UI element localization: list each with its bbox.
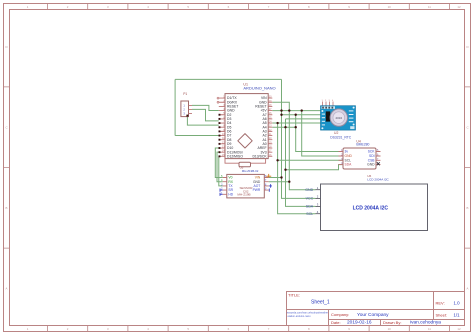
wire D12 to sensor TX bbox=[219, 156, 223, 186]
svg-text:D12/MISO: D12/MISO bbox=[227, 154, 243, 158]
svg-text:B: B bbox=[467, 206, 469, 210]
svg-text:11: 11 bbox=[428, 327, 431, 331]
svg-text:Sheet_1: Sheet_1 bbox=[311, 300, 330, 306]
svg-text:SCL: SCL bbox=[306, 212, 313, 216]
wire loop left vertical bbox=[174, 79, 176, 135]
junction bbox=[288, 181, 290, 183]
wire bus to RTC row2 bbox=[282, 114, 321, 116]
svg-text:ARDUINO_NANO: ARDUINO_NANO bbox=[243, 85, 275, 90]
wire GND bus to LCD GND bbox=[272, 102, 315, 189]
svg-text:Drawn By:: Drawn By: bbox=[383, 320, 401, 325]
RTC module U2 DS3231 bbox=[321, 100, 356, 139]
wire bus to RTC row3 bbox=[286, 118, 321, 120]
svg-text:HD: HD bbox=[228, 192, 233, 196]
LCD U6 2004A I2C bbox=[305, 174, 427, 230]
svg-text:TITLE:: TITLE: bbox=[288, 293, 300, 298]
svg-text:PWR: PWR bbox=[253, 188, 261, 192]
diamond bbox=[238, 134, 252, 148]
junction bbox=[276, 159, 278, 161]
junction bbox=[280, 176, 282, 178]
wire sensor GND to bus bbox=[269, 181, 290, 183]
wire bus V3 to LCD SDA bbox=[286, 119, 316, 206]
wire A4 row bbox=[272, 126, 295, 128]
title block bbox=[287, 292, 465, 326]
wire JP1 pin3 to D4 bbox=[187, 117, 218, 126]
svg-text:GND: GND bbox=[367, 163, 375, 167]
svg-text:2032: 2032 bbox=[335, 116, 342, 120]
svg-text:LCD 2004A I2C: LCD 2004A I2C bbox=[367, 177, 389, 181]
wire sensor VIN to bus bbox=[269, 177, 282, 179]
junction bbox=[295, 114, 297, 116]
svg-text:Company:: Company: bbox=[331, 312, 349, 317]
junction bbox=[276, 122, 278, 124]
wire JP1 pin2 to D3 bbox=[192, 109, 219, 121]
wire D11 to sensor RX bbox=[217, 152, 223, 182]
svg-text:12: 12 bbox=[457, 5, 461, 9]
svg-text:easyeda.com/ivan.cehodnya/weat: easyeda.com/ivan.cehodnya/weather bbox=[287, 312, 328, 315]
svg-text:10: 10 bbox=[388, 327, 392, 331]
svg-text:D: D bbox=[466, 45, 468, 49]
svg-text:A: A bbox=[467, 287, 469, 291]
svg-text:SDA: SDA bbox=[306, 205, 314, 209]
svg-text:B: B bbox=[6, 206, 8, 210]
noconnect X on BME GND bbox=[377, 162, 380, 165]
svg-text:Sheet:: Sheet: bbox=[436, 313, 448, 318]
svg-text:SDA: SDA bbox=[345, 163, 353, 167]
svg-text:MH-Z19B-02: MH-Z19B-02 bbox=[242, 169, 259, 173]
svg-text:A: A bbox=[6, 287, 8, 291]
sensor U4 BME280 bbox=[339, 140, 381, 169]
svg-text:REV:: REV: bbox=[436, 301, 445, 306]
svg-text:Date:: Date: bbox=[331, 320, 341, 325]
svg-text:2019-02-16: 2019-02-16 bbox=[347, 320, 372, 326]
svg-text:-station-arduino-nano: -station-arduino-nano bbox=[287, 315, 311, 318]
+5V power flag bbox=[266, 174, 271, 178]
svg-text:GND: GND bbox=[305, 188, 313, 192]
wire A5 to RTC row4 bbox=[272, 122, 320, 124]
svg-text:ivan.cehodnya: ivan.cehodnya bbox=[410, 320, 441, 326]
svg-text:Your Company: Your Company bbox=[357, 312, 389, 318]
svg-text:DS3231_RTC: DS3231_RTC bbox=[330, 135, 352, 139]
wire JP1 pin1 to GND bbox=[192, 105, 219, 110]
svg-text:C: C bbox=[466, 126, 468, 130]
arduino solder squares bbox=[219, 114, 221, 157]
wire bus V1 to BME SCL bbox=[278, 159, 343, 161]
IC U1 ARDUINO_NANO bbox=[217, 82, 276, 158]
svg-text:SCK: SCK bbox=[368, 150, 376, 154]
wire D10 to sensor V0 bbox=[215, 148, 222, 177]
wire loop bottom to D7 bbox=[175, 135, 219, 137]
junction bbox=[284, 169, 286, 171]
wire bus V3 to BME SDA bbox=[286, 165, 344, 170]
junction bbox=[301, 109, 303, 111]
junction bbox=[295, 126, 297, 128]
svg-text:1.0: 1.0 bbox=[454, 301, 461, 306]
junction bbox=[284, 126, 286, 128]
svg-text:VCC: VCC bbox=[306, 197, 314, 201]
svg-text:P1: P1 bbox=[183, 92, 187, 96]
wire loop top bbox=[175, 78, 281, 80]
connector P1 bbox=[181, 92, 192, 117]
svg-text:11: 11 bbox=[428, 5, 431, 9]
wire bus V1 to LCD SCL bbox=[278, 123, 316, 214]
junction bbox=[288, 109, 290, 111]
noconnect flags sensor left SR,HD bbox=[220, 184, 272, 196]
svg-text:D13/SCK: D13/SCK bbox=[252, 154, 267, 158]
sensor CO2 MH-Z19B bbox=[221, 174, 269, 198]
svg-text:MH-Z19B: MH-Z19B bbox=[237, 193, 250, 197]
svg-text:D: D bbox=[5, 45, 7, 49]
wire bus V2 to LCD VCC bbox=[282, 79, 316, 198]
junction bbox=[280, 109, 282, 111]
wire +5V to RTC bbox=[272, 110, 320, 112]
svg-text:3v: 3v bbox=[345, 150, 349, 154]
svg-text:1/1: 1/1 bbox=[454, 313, 461, 318]
wire bus V5 to BME 3v bbox=[296, 115, 343, 152]
svg-text:BME280: BME280 bbox=[356, 143, 369, 147]
junction bbox=[280, 114, 282, 116]
arduino pin stubs bbox=[219, 98, 272, 156]
resistor U5 MH-Z19B-02 bbox=[225, 159, 266, 173]
svg-text:10: 10 bbox=[388, 5, 392, 9]
nc circles D1 D0 bbox=[217, 97, 219, 103]
noconnect flags sensor right AOT,PWR bbox=[269, 184, 272, 188]
svg-text:LCD 2004A I2C: LCD 2004A I2C bbox=[353, 206, 389, 212]
wire bus V6 to BME GND bbox=[302, 111, 343, 156]
svg-text:12: 12 bbox=[457, 327, 461, 331]
svg-text:C: C bbox=[5, 126, 7, 130]
